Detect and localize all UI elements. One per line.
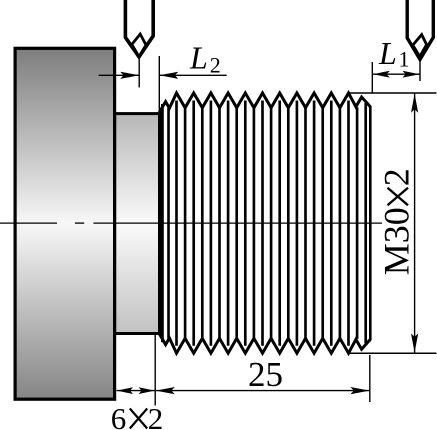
right tool insert diamond [413, 35, 427, 57]
svg-text:2: 2 [210, 53, 221, 78]
centerline [0, 222, 382, 224]
25 right witness line [369, 355, 371, 402]
svg-text:25: 25 [248, 355, 283, 394]
svg-text:L: L [189, 39, 208, 75]
thread bottom profile [159, 334, 370, 353]
svg-text:M30: M30 [377, 207, 417, 275]
25 dimension line with arrows [156, 390, 369, 392]
svg-text:6: 6 [111, 401, 127, 430]
svg-text:L: L [378, 35, 397, 71]
L1 witness line (tool tip) [419, 60, 421, 81]
L2 witness line (tool tip) [138, 59, 140, 88]
thread top profile [159, 93, 370, 112]
L2 dimension line left part with arrow [99, 74, 139, 76]
M30x2 label [377, 168, 417, 275]
L2 dimension line right part with arrow [160, 74, 227, 76]
L1 witness line (thread end) [371, 62, 373, 93]
svg-text:2: 2 [377, 168, 417, 186]
left tool insert diamond [132, 34, 146, 57]
step cylinder (undercut groove section) [115, 114, 160, 334]
large cylinder head [15, 48, 115, 399]
L1 dimension line with arrows [372, 73, 420, 75]
6x2 dimension line with outward arrows [117, 390, 156, 392]
bottom crest extension line [350, 352, 437, 354]
top crest extension line [349, 92, 437, 94]
M30x2 dimension line [414, 94, 416, 353]
thread vertical flank lines [162, 101, 365, 346]
thread end face [369, 106, 372, 340]
L2 witness line (thread start) [158, 56, 160, 112]
right thread-cutting tool [407, 0, 433, 59]
25 left witness line [154, 335, 156, 406]
left thread-cutting tool [125, 0, 153, 57]
svg-text:2: 2 [148, 401, 164, 430]
svg-text:1: 1 [399, 47, 410, 72]
